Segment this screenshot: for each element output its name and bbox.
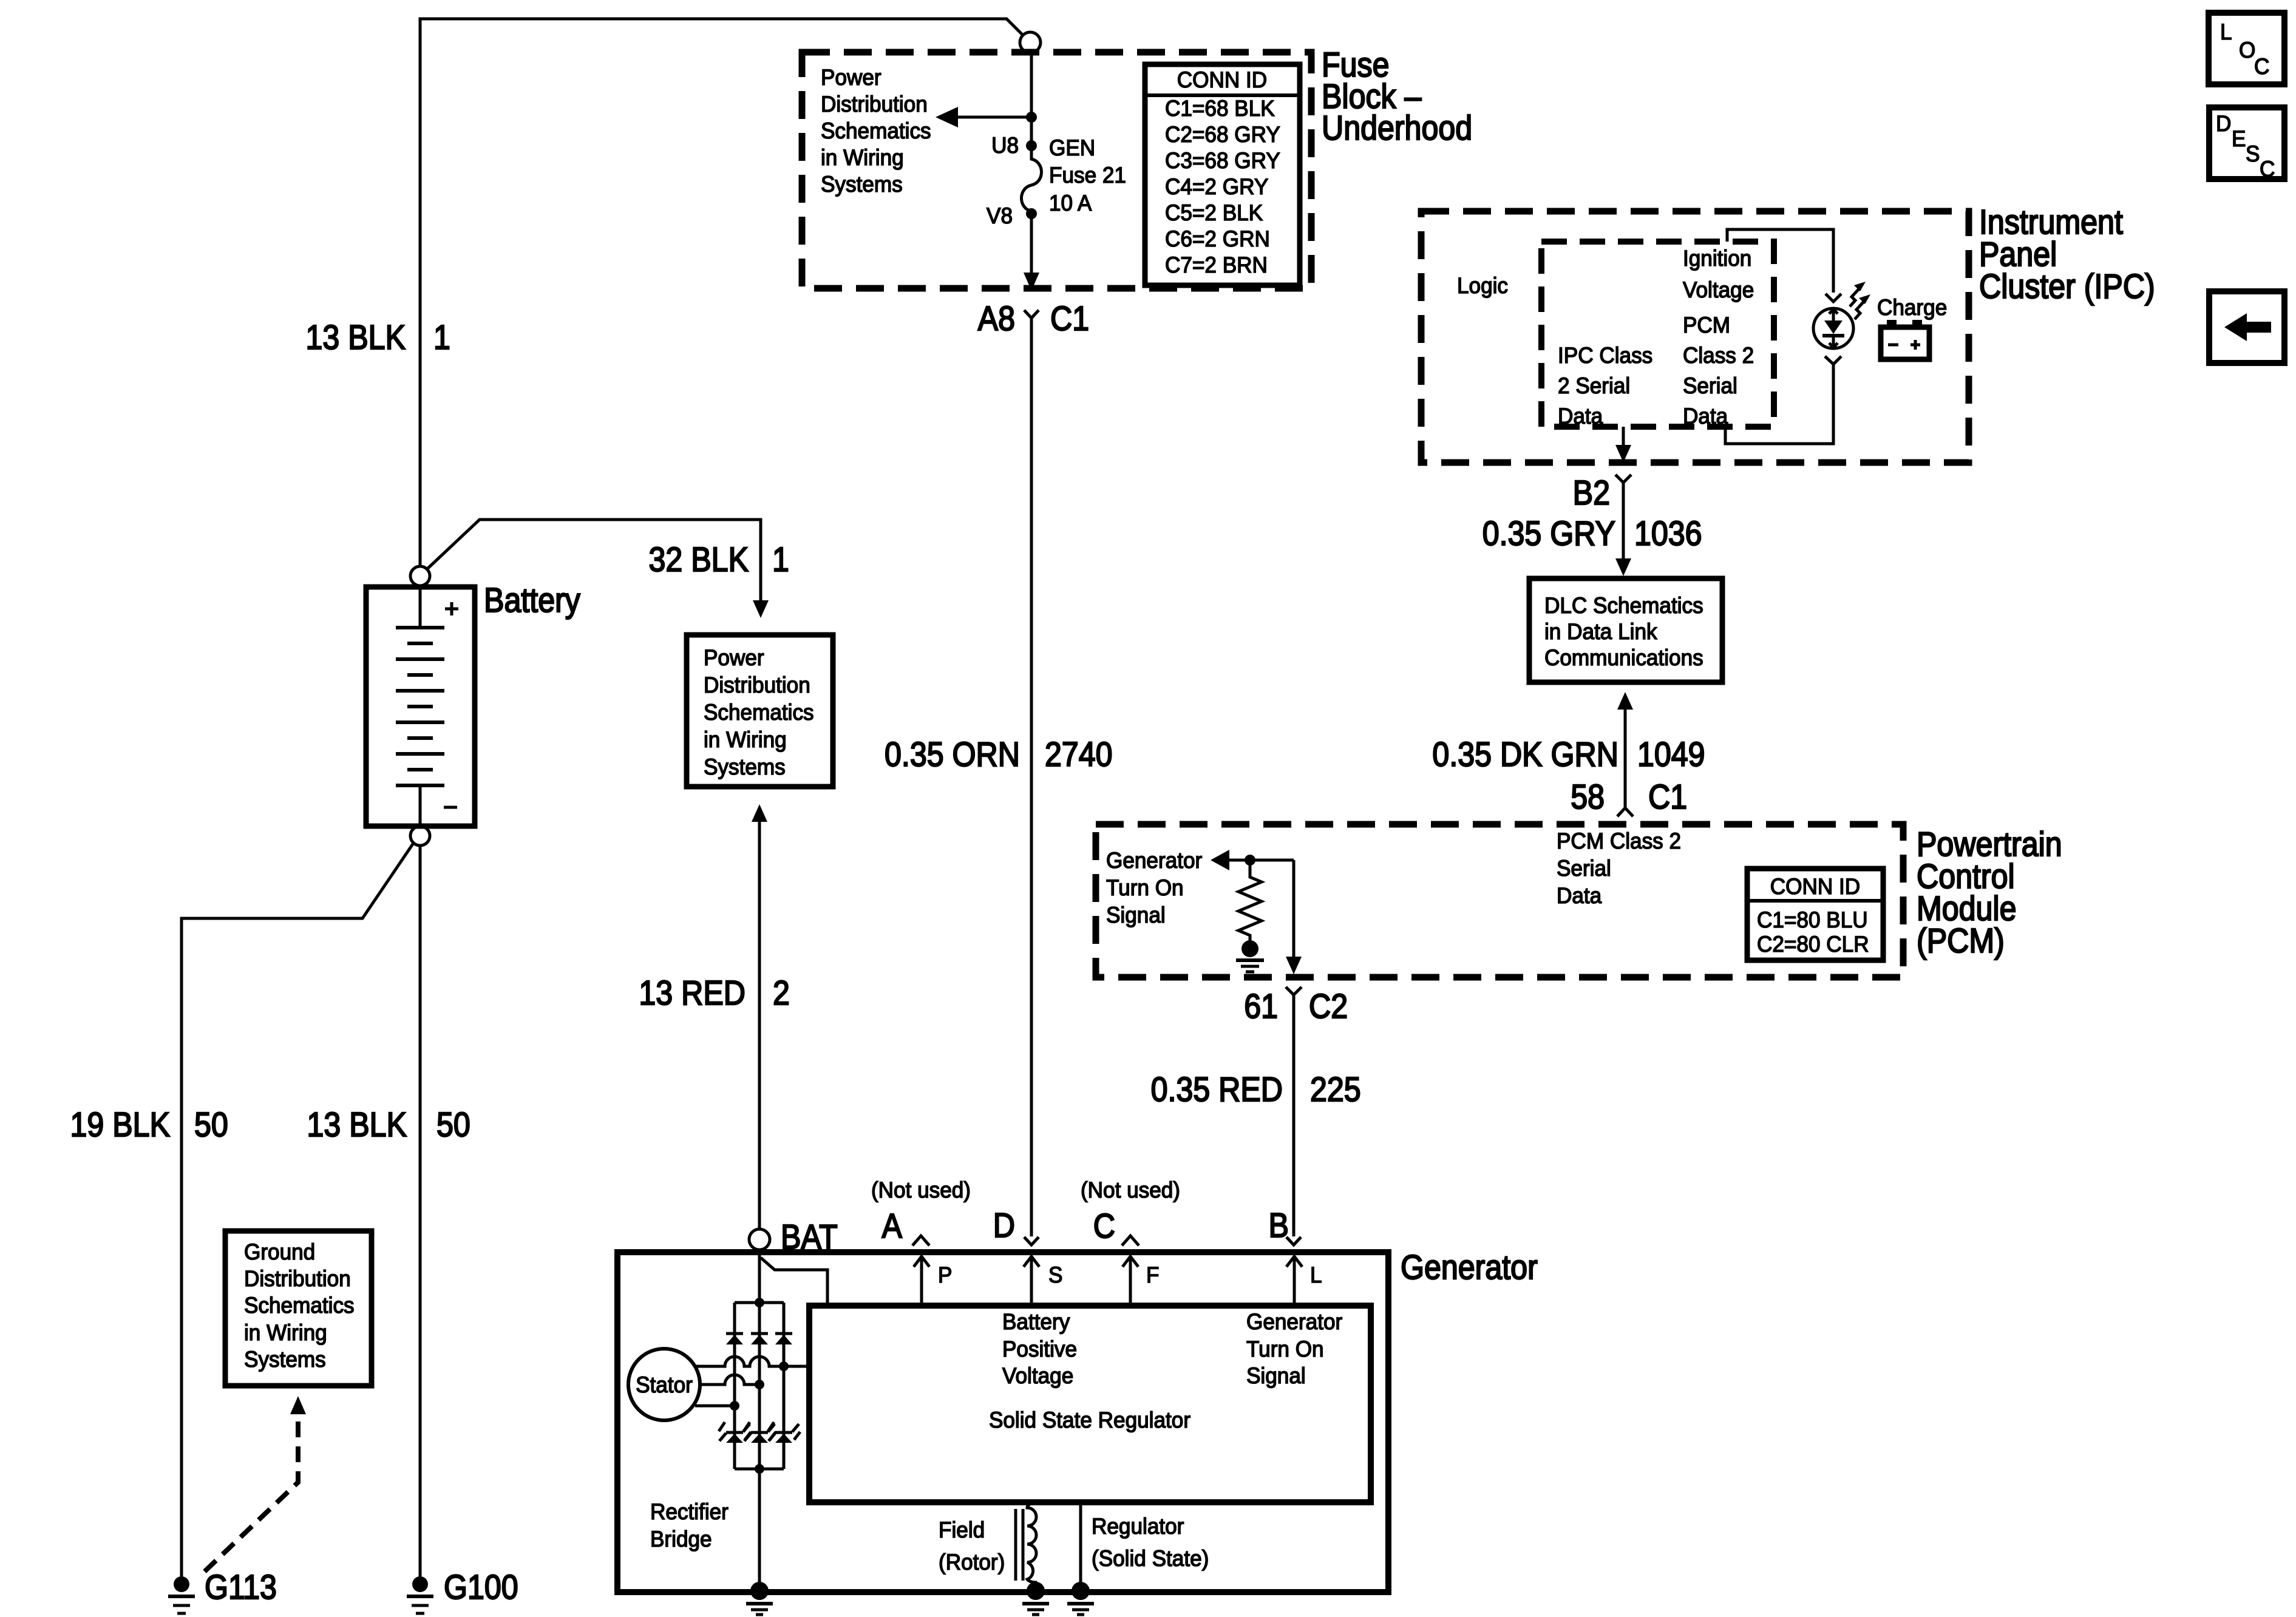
battery - symbol [444,806,457,809]
back arrow nav icon [2209,291,2284,363]
svg-text:19 BLK: 19 BLK [70,1105,171,1144]
wire: 0.35 DK GRN 1049 (PCM class 2 serial data) [1617,692,1633,710]
svg-text:Bridge: Bridge [650,1526,712,1551]
pin F arrow [1129,1256,1132,1306]
svg-text:GEN: GEN [1049,135,1095,160]
wire: 0.35 GRY 1036 [1622,483,1625,560]
ground G113 [174,1576,189,1592]
svg-text:0.35 ORN: 0.35 ORN [885,735,1020,774]
BAT terminal ring [749,1229,770,1250]
svg-text:Systems: Systems [704,754,786,779]
svg-text:in Wiring: in Wiring [704,727,787,752]
battery internal lead [419,586,422,628]
svg-text:Serial: Serial [1557,855,1611,881]
generator box [617,1252,1388,1592]
svg-text:in Wiring: in Wiring [821,144,904,170]
stator winding 3 [695,1405,735,1408]
ground distribution schematics box [225,1231,372,1386]
svg-text:Schematics: Schematics [704,699,814,725]
stator winding 1 [695,1357,809,1366]
wire: turn-on signal to C2 exit [1292,860,1296,958]
svg-text:Field: Field [939,1517,985,1542]
svg-text:PCM: PCM [1683,312,1730,337]
svg-text:(Not used): (Not used) [1081,1177,1180,1202]
battery pictograph (charge lamp) [1881,327,1929,359]
pin P arrow [920,1256,923,1306]
svg-text:Stator: Stator [636,1372,693,1397]
svg-text:2: 2 [773,974,790,1012]
svg-text:C7=2 BRN: C7=2 BRN [1165,252,1268,277]
svg-text:Communications: Communications [1544,645,1703,670]
wire: BAT bus down to ground [758,1250,761,1582]
DESC nav icon [2209,107,2284,179]
svg-text:U8: U8 [991,132,1019,158]
field (rotor) coil [1027,1502,1036,1583]
svg-text:Turn On: Turn On [1106,875,1184,900]
svg-text:Solid State Regulator: Solid State Regulator [989,1407,1190,1432]
diode (middle top) [751,1332,768,1335]
svg-text:V8: V8 [987,203,1013,228]
wire: 0.35 ORN 2740 down to generator terminal D [1030,318,1033,1236]
svg-text:50: 50 [436,1105,470,1144]
svg-text:B: B [1269,1206,1289,1245]
connector chevron below indicator [1825,356,1841,364]
svg-text:C2=80 CLR: C2=80 CLR [1757,931,1869,957]
stator winding 2 [697,1375,759,1385]
svg-text:C2: C2 [1309,987,1348,1026]
svg-text:IPC Class: IPC Class [1558,342,1652,368]
svg-text:C3=68 GRY: C3=68 GRY [1165,147,1280,173]
svg-text:Regulator: Regulator [1092,1513,1184,1539]
svg-text:C1: C1 [1050,299,1089,338]
wire: BAT to regulator [761,1258,827,1306]
regulator ground wire [1079,1502,1082,1582]
svg-text:Data: Data [1558,403,1603,429]
light emission arrows [1850,289,1859,307]
battery top ring [410,566,430,586]
svg-text:1: 1 [433,318,450,357]
svg-text:Distribution: Distribution [821,91,928,117]
svg-text:Ignition: Ignition [1683,245,1751,271]
svg-text:1036: 1036 [1634,514,1702,553]
svg-text:C: C [2254,53,2269,79]
CONN ID table (PCM) [1747,869,1883,960]
battery box [366,587,475,826]
svg-text:Power: Power [704,645,764,670]
svg-text:1: 1 [772,540,789,579]
svg-text:in Wiring: in Wiring [244,1320,327,1345]
svg-text:Power: Power [821,64,881,90]
svg-text:Systems: Systems [821,171,903,197]
svg-text:Underhood: Underhood [1322,109,1472,147]
svg-text:G100: G100 [444,1568,518,1607]
stator circle [628,1349,700,1420]
pin L arrow [1293,1256,1296,1306]
svg-text:PCM Class 2: PCM Class 2 [1557,828,1681,853]
field core bars [1014,1509,1017,1581]
LOC nav icon [2209,13,2284,84]
diode (left top) [726,1332,743,1335]
svg-text:(PCM): (PCM) [1917,921,2005,960]
svg-text:Distribution: Distribution [704,672,810,697]
connector A8 / C1 [1024,310,1039,318]
svg-text:0.35 RED: 0.35 RED [1151,1070,1283,1109]
svg-text:Serial: Serial [1683,373,1737,398]
svg-text:L: L [1310,1262,1322,1287]
power distribution schematics box [687,635,833,787]
svg-text:Fuse 21: Fuse 21 [1049,162,1126,188]
svg-text:Data: Data [1557,883,1602,908]
svg-text:Voltage: Voltage [1683,277,1754,302]
svg-text:BAT: BAT [781,1218,838,1256]
battery bottom ring [410,826,430,846]
svg-text:C: C [2260,156,2275,181]
svg-text:Rectifier: Rectifier [650,1499,729,1524]
battery plates [396,626,444,629]
powertrain control module (PCM) dashed box [1096,824,1903,977]
wire to power distribution schematics (left arrow) [957,116,1031,119]
IPC logic inner dashed box [1541,242,1774,427]
svg-text:Class 2: Class 2 [1683,342,1754,368]
svg-text:0.35 DK GRN: 0.35 DK GRN [1432,735,1618,774]
rectifier bridge right rail [783,1303,786,1469]
svg-text:1049: 1049 [1637,735,1705,774]
svg-text:Generator: Generator [1246,1309,1342,1334]
wire: 19 BLK 50 battery negative to G113 [182,843,413,1577]
svg-text:0.35 GRY: 0.35 GRY [1483,514,1615,553]
svg-text:Signal: Signal [1106,902,1166,927]
svg-text:DLC Schematics: DLC Schematics [1544,592,1703,618]
svg-text:Generator: Generator [1106,847,1202,873]
svg-text:O: O [2239,37,2255,63]
svg-text:C1: C1 [1648,778,1687,816]
wire: ignition voltage feed to charge indicator [1727,229,1833,293]
svg-text:A: A [882,1207,903,1246]
wire: 32 BLK 1 from battery to power distribution [427,520,761,601]
generator internal ground (BAT bus) [750,1582,769,1600]
junction dot [1026,112,1037,123]
svg-text:L: L [2220,19,2232,44]
svg-text:Generator: Generator [1401,1248,1538,1287]
svg-text:C6=2 GRN: C6=2 GRN [1165,226,1270,251]
wire: 0.35 RED 225 to generator terminal B [1292,995,1296,1236]
svg-text:Logic: Logic [1457,273,1508,298]
connector B2 [1615,475,1631,483]
CONN ID table (fuse block) [1145,64,1300,285]
svg-text:58: 58 [1571,778,1605,816]
instrument panel cluster (IPC) dashed box [1421,211,1969,463]
zener diode (middle) [751,1431,768,1434]
zener diode (right) [775,1431,792,1434]
rectifier bridge bottom bar [735,1468,784,1471]
rectifier bridge top bar [735,1301,784,1304]
wire: fuse feed inside fuse block [1030,53,1033,146]
svg-text:F: F [1146,1262,1159,1287]
svg-text:S: S [1048,1262,1062,1287]
svg-text:Data: Data [1683,403,1728,429]
DLC schematics box [1529,578,1722,682]
svg-text:Positive: Positive [1002,1336,1077,1361]
connector 61 / C2 [1286,987,1302,995]
resistor (pull-up in PCM) [1238,860,1262,941]
svg-text:50: 50 [194,1105,228,1144]
svg-text:Schematics: Schematics [244,1292,355,1318]
svg-text:C5=2 BLK: C5=2 BLK [1165,200,1263,225]
svg-text:C2=68 GRY: C2=68 GRY [1165,121,1280,147]
dashed reference arrow to ground distribution [205,1414,298,1571]
connector 58 / C1 [1617,808,1633,816]
svg-text:Battery: Battery [484,581,580,620]
svg-text:CONN ID: CONN ID [1770,873,1860,899]
svg-text:Schematics: Schematics [821,118,931,143]
svg-text:(Not used): (Not used) [871,1177,971,1202]
svg-text:61: 61 [1244,987,1278,1026]
svg-text:A8: A8 [978,299,1015,338]
svg-text:Turn On: Turn On [1246,1336,1324,1361]
junction dot [1245,855,1255,866]
diode (right top) [775,1332,792,1335]
svg-text:B2: B2 [1573,473,1610,512]
ground (PCM internal) [1241,940,1258,957]
svg-text:Cluster (IPC): Cluster (IPC) [1979,267,2155,306]
ground G100 [412,1576,428,1592]
svg-text:S: S [2246,141,2260,166]
svg-text:E: E [2232,126,2246,151]
svg-text:in Data Link: in Data Link [1544,619,1658,644]
connector ring at fuse block feed [1020,32,1041,53]
wire: 13 BLK 50 battery negative to G100 [419,846,422,1577]
svg-text:Voltage: Voltage [1002,1363,1073,1388]
connector chevron above indicator [1826,294,1841,302]
svg-text:Distribution: Distribution [244,1266,351,1291]
wire: fuse output with arrow at fuse block edge [1030,214,1033,274]
svg-text:13 RED: 13 RED [639,974,746,1012]
fuse GEN Fuse 21 10 A [1026,140,1037,151]
svg-text:(Rotor): (Rotor) [939,1549,1005,1575]
svg-text:Charge: Charge [1877,294,1947,320]
solid state regulator box [809,1306,1371,1502]
wire: generator turn on signal with left arrow [1211,850,1229,870]
svg-text:225: 225 [1310,1070,1361,1109]
rectifier bridge left rail [733,1303,736,1469]
svg-text:CONN ID: CONN ID [1177,67,1267,92]
pin S arrow [1030,1256,1033,1306]
svg-text:C4=2 GRY: C4=2 GRY [1165,174,1268,199]
svg-text:13 BLK: 13 BLK [306,318,406,357]
svg-text:13 BLK: 13 BLK [307,1105,407,1144]
svg-text:32 BLK: 32 BLK [649,540,749,579]
wire: indicator return to logic [1725,364,1833,444]
svg-text:P: P [938,1262,952,1287]
zener diode (left) [726,1431,743,1434]
svg-text:10 A: 10 A [1049,190,1092,215]
charge indicator LED [1813,308,1853,348]
field coil ground [1027,1582,1045,1600]
wire: battery positive feed to fuse block (top) [420,19,1023,566]
svg-text:D: D [2216,110,2231,136]
svg-text:Battery: Battery [1002,1309,1070,1334]
wire: IPC class 2 serial data exit (B2) [1622,427,1625,447]
svg-text:2740: 2740 [1045,735,1113,774]
svg-text:G113: G113 [205,1568,277,1607]
svg-text:Systems: Systems [244,1346,326,1372]
wire: 13 RED 2 from generator BAT up to power distribution [752,804,767,822]
svg-text:C: C [1093,1207,1115,1246]
svg-text:C1=68 BLK: C1=68 BLK [1165,95,1275,121]
fuse block - underhood dashed box [802,52,1311,288]
svg-text:2 Serial: 2 Serial [1558,373,1630,398]
svg-text:Signal: Signal [1246,1363,1306,1388]
battery + symbol [445,608,458,611]
svg-text:(Solid State): (Solid State) [1092,1545,1209,1571]
svg-text:D: D [993,1206,1015,1245]
svg-text:C1=80 BLU: C1=80 BLU [1757,907,1868,932]
svg-text:Ground: Ground [244,1239,315,1264]
